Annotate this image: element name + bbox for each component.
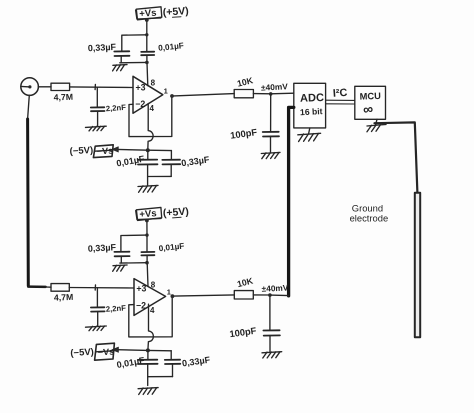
thick wire ch2 node to ADC input 2: [289, 107, 294, 296]
-Vs rail: [117, 350, 171, 351]
pin 4 wire (V-) with hop: [148, 304, 154, 350]
svg-text:0,33µF: 0,33µF: [88, 242, 117, 253]
electrode E1 (signal electrode, circle with dot): [21, 78, 39, 96]
ground (C12): [262, 352, 282, 358]
arrow to -Vs box: [112, 147, 119, 152]
wire node to ADC: [271, 92, 294, 95]
wire R3 to U2 +3 input: [69, 287, 134, 290]
ground (V+ decoupling): [113, 65, 127, 71]
wire cap bottoms to ground: [120, 262, 147, 264]
node (supply junction under C2): [145, 61, 149, 65]
node (V+ branch): [145, 33, 148, 36]
svg-text:0,33µF: 0,33µF: [181, 154, 211, 168]
wire branch to C3: [122, 35, 147, 51]
wire electrode E1 down to channel 2 (thick lead): [28, 95, 30, 119]
supply +Vs box (ch2): [136, 207, 162, 220]
svg-text:1: 1: [167, 287, 171, 296]
capacitor C7 2.2nF: [91, 288, 105, 326]
node (under +Vs box): [145, 219, 149, 223]
resistor R4 10K: [234, 291, 253, 299]
svg-text:100pF: 100pF: [230, 127, 258, 141]
node (ADC input ch2): [268, 293, 272, 297]
capacitor C4 0.01uF (V- decoupling): [138, 150, 158, 185]
node (V- junction): [146, 348, 150, 352]
ground (V- decoupling): [138, 185, 158, 192]
op-amp U1: [133, 76, 163, 113]
svg-text:−2: −2: [136, 300, 146, 310]
ground (C7): [86, 326, 107, 331]
svg-text:(−5V): (−5V): [70, 347, 94, 359]
svg-text:±40mV: ±40mV: [261, 81, 289, 92]
svg-text:4,7M: 4,7M: [54, 92, 74, 103]
capacitor C2 0.01uF (V+ decoupling): [141, 36, 154, 62]
svg-text:0,01µF: 0,01µF: [116, 154, 146, 169]
resistor R1 4.7M: [51, 83, 70, 90]
wire MCU ground to ground electrode: [375, 122, 418, 192]
svg-text:8: 8: [151, 281, 156, 290]
capacitor C11 0.33uF (V- decoupling): [148, 351, 181, 377]
ground (MCU): [367, 119, 386, 132]
svg-text:+3: +3: [136, 82, 146, 92]
svg-text:10K: 10K: [236, 275, 255, 289]
wire R2 to node: [253, 93, 270, 95]
arrow to -Vs box: [112, 347, 119, 352]
wire E1 to R1: [38, 86, 51, 88]
svg-text:electrode: electrode: [350, 213, 389, 224]
MCU box: [355, 86, 386, 119]
capacitor C1 2.2nF: [91, 87, 105, 126]
svg-text:0,01µF: 0,01µF: [116, 355, 146, 370]
node (ADC input ch1): [269, 92, 273, 96]
svg-text:4: 4: [150, 104, 155, 113]
svg-text:±40mV: ±40mV: [261, 282, 289, 293]
svg-text:10K: 10K: [236, 75, 255, 89]
wire +Vs box to node: [146, 220, 148, 235]
svg-text:+Vs: +Vs: [139, 208, 157, 220]
supply -Vs box: [93, 145, 113, 158]
node (V+ branch): [145, 233, 148, 236]
ground (V+ decoupling): [113, 265, 127, 271]
svg-text:0,33µF: 0,33µF: [88, 42, 117, 53]
svg-text:1: 1: [164, 87, 168, 96]
capacitor C12 100pF: [263, 295, 280, 351]
ground (ADC): [298, 128, 321, 142]
ground (V- decoupling ch2): [138, 388, 158, 395]
wire cap bottoms to ground: [120, 61, 147, 63]
node tick (junction of C7): [94, 285, 96, 290]
svg-text:100pF: 100pF: [229, 326, 257, 340]
wire R1 to U1 +3 input: [70, 86, 133, 89]
node (supply junction under C8): [145, 261, 149, 265]
node (U2 output): [171, 294, 175, 298]
svg-text:∞: ∞: [362, 100, 374, 117]
ground (C6): [261, 152, 280, 158]
svg-text:−Vs: −Vs: [97, 146, 114, 157]
svg-text:4,7M: 4,7M: [54, 292, 74, 303]
svg-text:I²C: I²C: [333, 87, 348, 100]
svg-text:0,01µF: 0,01µF: [158, 41, 184, 53]
svg-text:ADC: ADC: [300, 92, 324, 105]
resistor R2 10K: [234, 90, 253, 98]
pin 4 wire (V-) with hop: [148, 104, 153, 150]
wire node to thick ADC lead: [270, 294, 289, 297]
feedback wire U2 output to -2 input: [129, 297, 172, 337]
svg-text:8: 8: [151, 79, 156, 88]
I2C bus wires: [326, 99, 355, 101]
capacitor C9 0.33uF (V+ decoupling): [114, 252, 129, 263]
capacitor C8 0.01uF (V+ decoupling): [141, 236, 154, 262]
node (U1 output): [170, 94, 174, 98]
pin 8 wire (V+): [146, 263, 149, 287]
svg-text:2,2nF: 2,2nF: [106, 103, 127, 113]
capacitor C3 0.33uF (V+ decoupling): [114, 51, 129, 63]
pin 8 wire (V+): [146, 63, 149, 86]
resistor R3 4.7M: [51, 284, 69, 292]
svg-text:0,33µF: 0,33µF: [181, 355, 211, 369]
op-amp U2: [134, 279, 166, 316]
wire branch to C9: [121, 235, 147, 252]
feedback wire U1 output to -2 input: [129, 96, 172, 137]
wire R4 to node: [253, 294, 270, 296]
svg-text:−Vs: −Vs: [98, 347, 115, 358]
capacitor C5 0.33uF (V- decoupling): [148, 151, 181, 177]
svg-text:4: 4: [150, 306, 155, 315]
svg-text:+Vs: +Vs: [139, 8, 157, 20]
node (V- junction): [146, 148, 150, 152]
supply +Vs box: [136, 7, 162, 20]
capacitor C6 100pF: [263, 94, 279, 152]
capacitor C10 0.01uF (V- decoupling): [138, 350, 158, 385]
wire +Vs box to node: [146, 19, 148, 35]
svg-text:−2: −2: [135, 99, 145, 109]
supply -Vs box (ch2): [95, 343, 115, 360]
wire U1 output to R2: [174, 94, 234, 96]
ground electrode bar: [415, 193, 420, 337]
ADC box: [294, 83, 326, 128]
node tick (junction of C1): [94, 84, 96, 89]
ground (C1): [86, 126, 107, 131]
node (under +Vs box): [145, 18, 149, 22]
-Vs rail: [117, 149, 171, 150]
svg-text:(−5V): (−5V): [69, 145, 93, 157]
svg-text:0,01µF: 0,01µF: [158, 242, 184, 254]
wire U2 output to R4: [174, 295, 234, 296]
svg-text:16 bit: 16 bit: [300, 106, 323, 117]
svg-text:2,2nF: 2,2nF: [106, 303, 127, 313]
svg-text:+3: +3: [136, 283, 146, 293]
